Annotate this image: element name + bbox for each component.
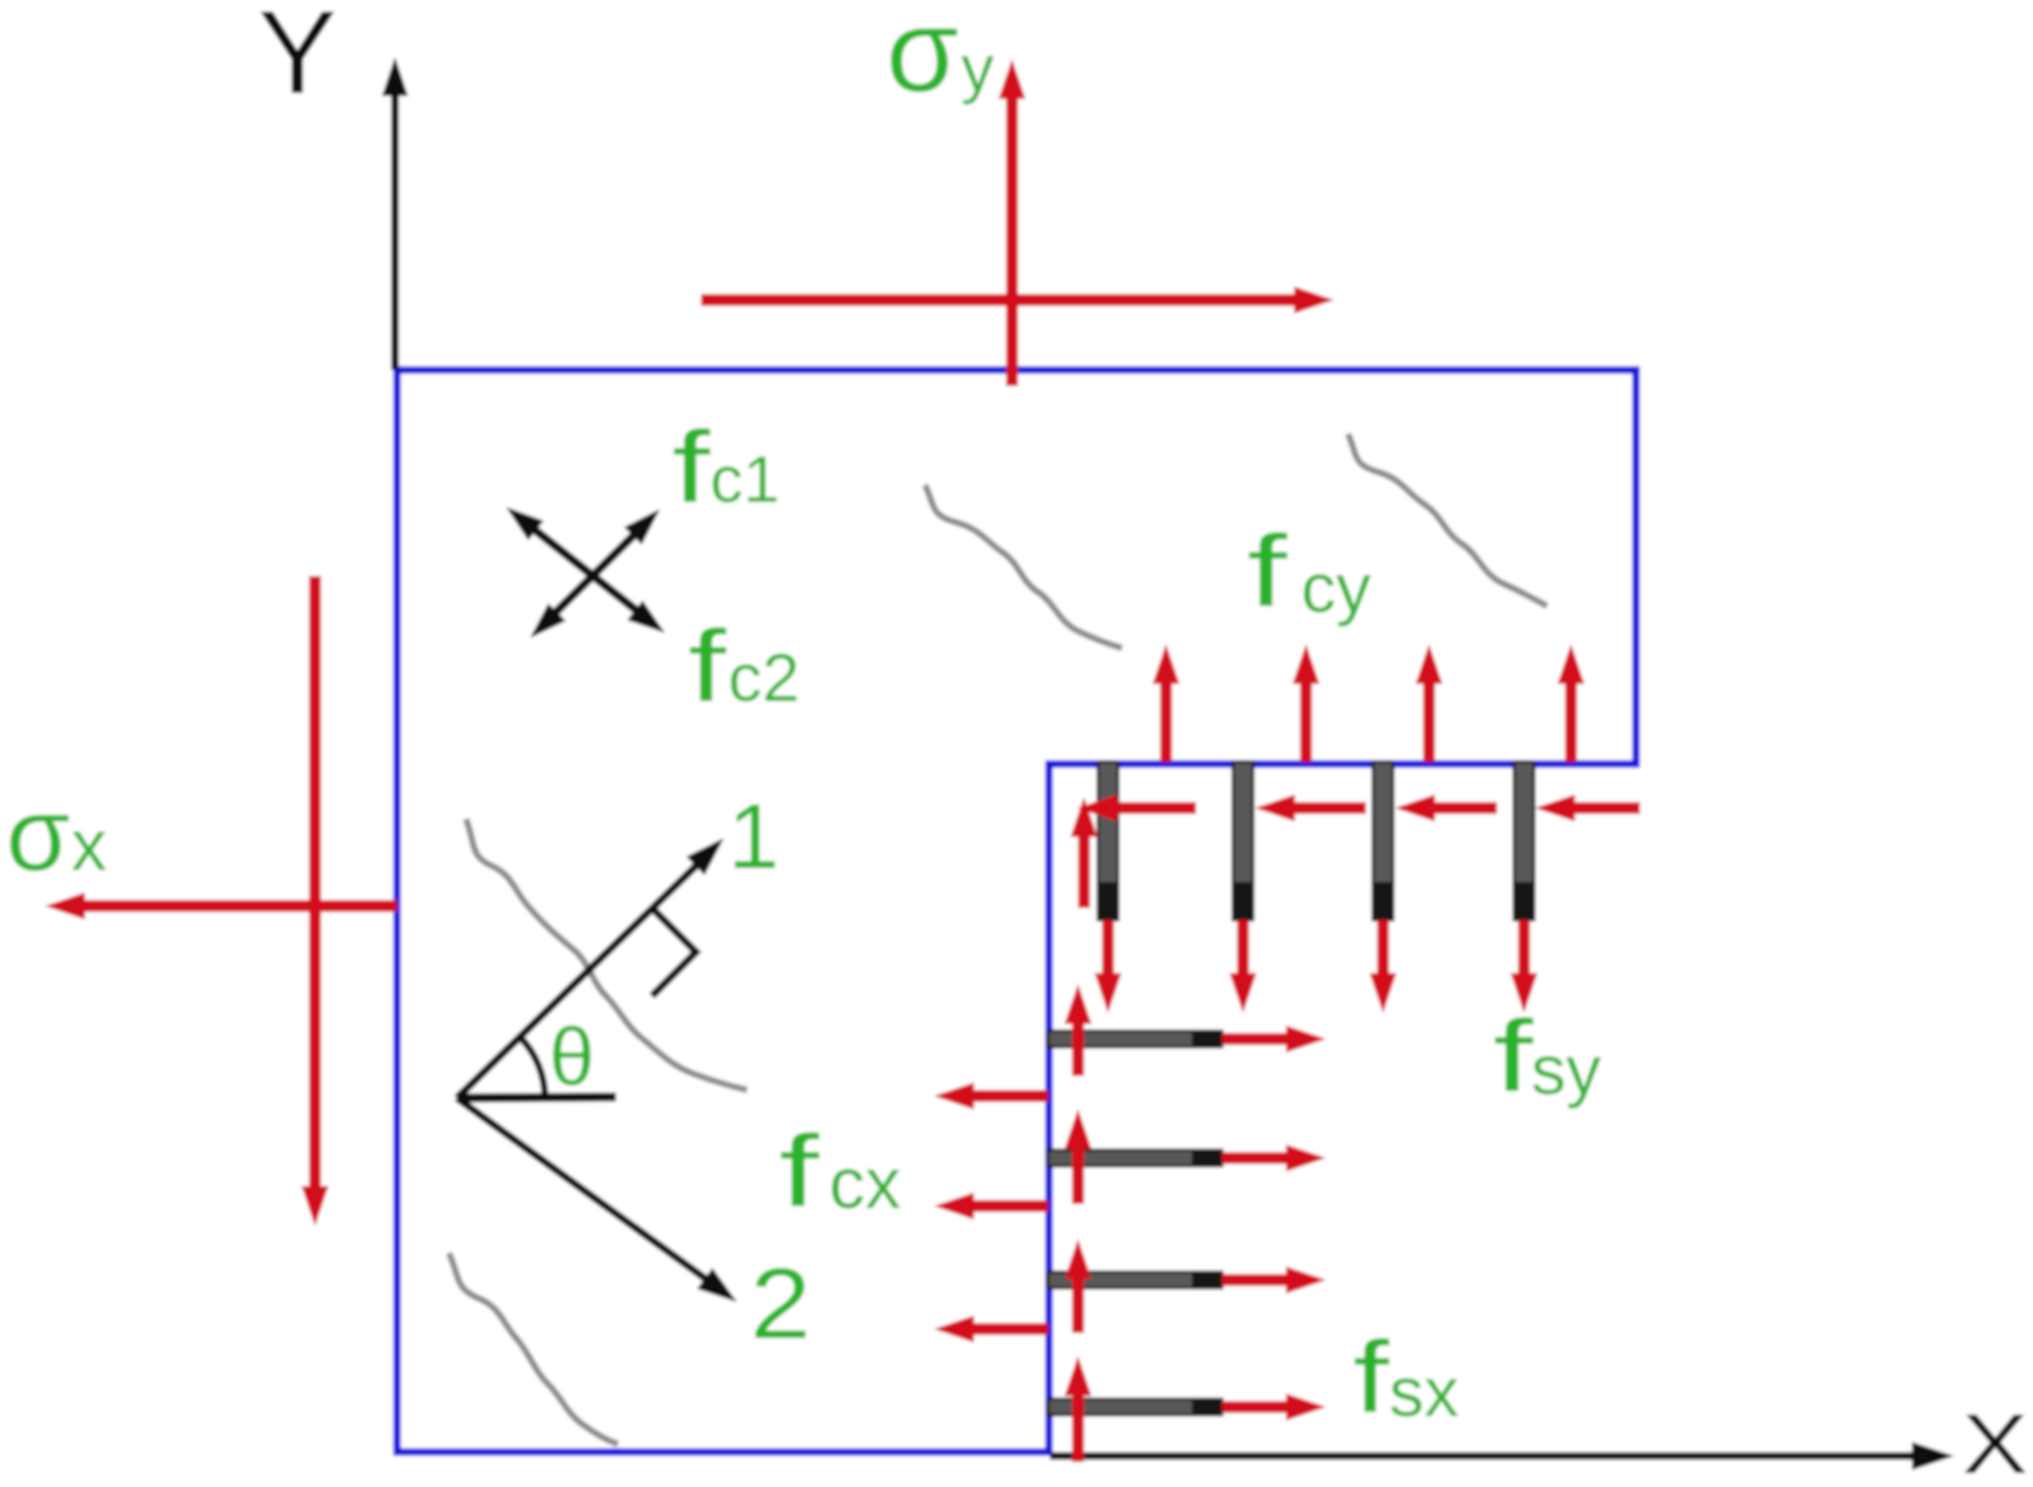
concrete stress fcx arrows (red, left) (970, 1090, 1048, 1102)
crack squiggle top-right (1348, 434, 1547, 606)
concrete element outline (blue L-shaped cut) (397, 370, 1636, 1452)
X axis (1050, 1452, 1918, 1460)
rebar horizontal 1 (1048, 1031, 1222, 1047)
arrow tau on left face (red, down) (309, 576, 321, 1190)
Y axis (391, 95, 399, 370)
svg-text:X: X (1962, 1397, 2028, 1487)
crack squiggle top-centre (925, 485, 1122, 648)
svg-text:σ: σ (886, 0, 959, 117)
right-angle marker on crack (652, 908, 696, 996)
svg-text:Y: Y (258, 0, 337, 119)
svg-text:cx: cx (829, 1144, 901, 1224)
principal direction 1 arrow (457, 862, 700, 1098)
svg-text:σ: σ (6, 777, 70, 893)
arrow tau on top face (red, right) (701, 294, 1298, 306)
svg-text:f: f (1493, 999, 1534, 1113)
principal direction 2 arrow (457, 1098, 710, 1282)
rebar vertical 3 (1373, 762, 1393, 920)
svg-text:y: y (961, 31, 994, 105)
crack squiggle bottom-left (449, 1253, 618, 1444)
svg-text:cy: cy (1301, 549, 1371, 627)
svg-text:c2: c2 (728, 640, 800, 716)
rebar horizontal 4 (1048, 1399, 1222, 1415)
steel stress fsx arrows (red, right) (1222, 1033, 1292, 1045)
svg-text:f: f (672, 410, 711, 524)
svg-text:1: 1 (728, 786, 779, 888)
shear arrows on horizontal cut (red, left) (1110, 802, 1196, 814)
rebar vertical 2 (1233, 762, 1253, 920)
svg-text:c1: c1 (710, 442, 780, 516)
rebar horizontal 2 (1048, 1150, 1222, 1166)
svg-text:θ: θ (549, 1012, 595, 1103)
shear arrows on vertical cut (red, up) (1078, 833, 1090, 908)
angle base line (457, 1097, 616, 1098)
angle theta arc (520, 1037, 545, 1098)
svg-text:f: f (688, 609, 727, 723)
concrete stress fcy arrows (red, up) (1160, 680, 1172, 762)
svg-text:x: x (71, 806, 107, 886)
svg-text:f: f (1353, 1320, 1390, 1434)
rebar vertical 4 (1514, 762, 1534, 920)
svg-text:sy: sy (1531, 1031, 1601, 1109)
arrow sigma-x (red, left) (81, 900, 397, 912)
arrow sigma-y (red, up) (1006, 95, 1018, 386)
svg-text:f: f (1247, 514, 1288, 628)
rebar vertical 1 (1098, 762, 1118, 920)
rebar horizontal 3 (1048, 1272, 1222, 1288)
principal concrete stress cross fc1/fc2 (556, 535, 634, 612)
svg-text:sx: sx (1389, 1353, 1459, 1431)
svg-text:2: 2 (750, 1248, 811, 1360)
crack squiggle crossing principal direction 1 (466, 819, 747, 1090)
svg-text:f: f (779, 1114, 820, 1228)
steel stress fsy arrows (red, down) (1102, 920, 1114, 977)
